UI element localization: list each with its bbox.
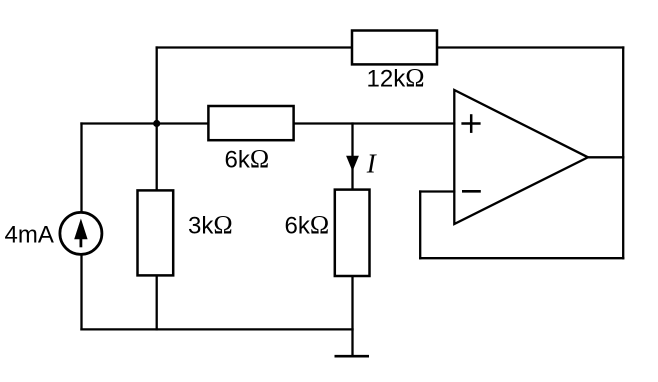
wire: 6k horizontal right lead to + input (294, 122, 455, 124)
resistor 12k body (352, 31, 437, 65)
wire: feedback bottom (420, 257, 623, 259)
wire: left vertical to current source top (80, 124, 82, 213)
resistor 3k body (138, 190, 174, 275)
wire: node A to 3k top lead (156, 124, 158, 191)
wire: current source bottom to bottom rail (80, 254, 82, 329)
wire: node A up to top rail (156, 48, 158, 124)
ground (335, 355, 370, 358)
svg-text:12kΩ: 12kΩ (367, 64, 425, 93)
wire: main rail to vertical 6k top lead (351, 124, 353, 190)
op-amp plus input marker (461, 114, 480, 133)
svg-text:3kΩ: 3kΩ (188, 211, 233, 240)
wire: feedback to inverting input (420, 190, 454, 192)
wire: right vertical output net (622, 48, 624, 259)
svg-text:6kΩ: 6kΩ (225, 145, 270, 174)
current source CS1 circle (60, 212, 102, 254)
wire: 3k bottom lead to bottom rail (156, 275, 158, 329)
wire: 12k right lead to output column (437, 46, 623, 48)
resistor 6k horizontal body (208, 106, 293, 140)
svg-text:6kΩ: 6kΩ (285, 211, 330, 240)
op-amp minus input marker (462, 190, 481, 193)
current arrow I head (346, 156, 359, 172)
wire: feedback left vertical (419, 192, 421, 259)
wire: vertical 6k bottom lead to ground (351, 276, 353, 356)
wire: left node to 6k horizontal left lead (82, 122, 209, 124)
wire: bottom rail (82, 328, 353, 330)
op-amp U1 triangle (454, 90, 588, 224)
current source arrow (74, 219, 87, 240)
node A junction dot (153, 120, 160, 127)
wire: top rail to 12k left lead (157, 46, 352, 48)
svg-text:4mA: 4mA (5, 222, 54, 249)
wire: op-amp output lead (588, 156, 623, 158)
resistor 6k vertical body (335, 190, 370, 276)
